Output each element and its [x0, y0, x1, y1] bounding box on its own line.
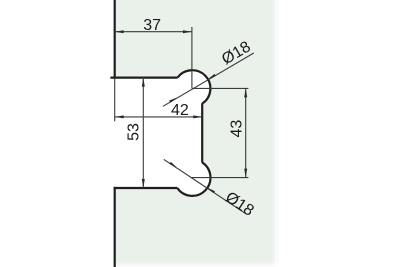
svg-text:37: 37 [143, 17, 161, 34]
svg-text:42: 42 [171, 102, 189, 119]
svg-text:53: 53 [126, 123, 143, 141]
svg-text:43: 43 [229, 120, 246, 138]
